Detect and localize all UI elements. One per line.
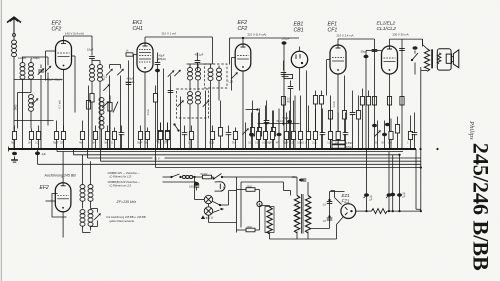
tube V5 EF1/CF1: [330, 45, 346, 74]
trimmer 5-12pF: [102, 75, 110, 91]
component at x=107: [104, 126, 110, 150]
resistor R8: [257, 109, 261, 150]
component at x=251: [248, 113, 254, 150]
resistor R6: [165, 123, 170, 150]
voltage selector plug: [257, 190, 262, 231]
rail wire 3 + label 75V: [88, 157, 421, 161]
wire antenna coupling: [14, 80, 63, 121]
wire top link: [23, 56, 49, 58]
IF transformer L10 pair: [208, 64, 233, 149]
svg-text:40-1µF: 40-1µF: [195, 53, 204, 57]
wire speaker return riser: [420, 67, 422, 212]
wire transformer return: [421, 70, 427, 72]
svg-text:1 mA: 1 mA: [332, 101, 336, 107]
component at x=384: [381, 121, 387, 150]
component at x=235: [232, 128, 237, 150]
svg-text:10µF: 10µF: [87, 48, 94, 52]
svg-text:EL1/EL2: EL1/EL2: [377, 21, 396, 27]
oscillator coil L7 + padder: [99, 96, 118, 150]
wire V7 top: [62, 152, 64, 183]
svg-text:210 V 2,4 mA: 210 V 2,4 mA: [337, 34, 354, 38]
svg-text:245/246 B/BB: 245/246 B/BB: [468, 143, 493, 271]
svg-text:40µF: 40µF: [159, 54, 165, 58]
svg-text:80 mA: 80 mA: [277, 120, 284, 123]
filter capacitor C12 blob: [364, 149, 373, 212]
svg-text:Ausführung 245 BB: Ausführung 245 BB: [44, 174, 77, 178]
component at x=337.7: [335, 113, 341, 150]
wire V2 grid + box: [126, 51, 138, 150]
svg-text:Für Ausführung 245 BB u. 246: Für Ausführung 245 BB u. 246 BB: [107, 215, 146, 219]
svg-text:210 V 1 mA: 210 V 1 mA: [162, 32, 177, 36]
power transformer T2 secondary: [284, 182, 311, 233]
svg-text:pF: pF: [102, 78, 105, 82]
wire to lamps: [195, 177, 205, 200]
tube V4 label EB1 CB1: [294, 22, 304, 34]
svg-text:2000: 2000: [247, 186, 253, 189]
svg-text:CB1: CB1: [294, 27, 304, 33]
component at x=184: [182, 126, 188, 150]
capacitor 40pF + trimmers: [168, 53, 204, 77]
component at x=265: [262, 106, 271, 150]
capacitor 430uF: [155, 53, 167, 150]
note line 2: [108, 180, 141, 188]
svg-text:CF2: CF2: [52, 26, 62, 32]
tube V4 EB1 duodiode: [291, 47, 307, 91]
label 100pF 3-60uF: [18, 56, 40, 60]
tube V8 EZ1 rectifier: [341, 204, 356, 219]
component at x=258: [255, 113, 261, 150]
component at x=140: [137, 126, 143, 150]
IF transformer L9 bottom pair: [188, 92, 201, 121]
component at x=377: [374, 121, 381, 150]
resistor R3 1M: [153, 86, 157, 150]
variable capacitor C3: [106, 65, 113, 150]
oscillator coil L7b: [99, 117, 104, 149]
rail wire 4: [101, 160, 421, 162]
svg-text:4kΩ: 4kΩ: [79, 142, 83, 144]
svg-text:245/BB(B)=12P Zwischen—: 245/BB(B)=12P Zwischen—: [108, 180, 141, 184]
wire V5 cathode: [332, 74, 338, 149]
svg-text:L13: L13: [229, 80, 234, 84]
svg-text:50µF: 50µF: [283, 142, 289, 144]
tube V3 label EF2 CF2: [238, 20, 248, 32]
heater caps 1.5nF pair: [312, 192, 345, 229]
svg-text:430µF (480µF): 430µF (480µF): [47, 80, 63, 82]
svg-text:Philips: Philips: [468, 120, 475, 140]
mains choke L14: [182, 176, 193, 179]
tube V7 EF2 IF amp (BB version): [55, 183, 71, 212]
component at x=191: [188, 126, 193, 150]
tube V6 label EL1 CL1: [377, 21, 397, 33]
tube V2 EK1/CH1 octode: [137, 43, 153, 72]
component at x=56: [53, 121, 59, 150]
wire diode load: [306, 71, 308, 150]
switch S3: [212, 174, 237, 180]
resistors R16 R17: [360, 89, 370, 150]
capacitor C8: [288, 81, 294, 150]
wire: [284, 191, 291, 196]
svg-text:75 V: 75 V: [154, 157, 160, 161]
label 1Mohm: [14, 105, 18, 111]
svg-text:ZF=135 kHz: ZF=135 kHz: [116, 200, 137, 204]
IFT trimmer: [91, 209, 101, 227]
primary fuse + cap: [292, 176, 307, 196]
svg-text:47kΩ: 47kΩ: [346, 147, 352, 149]
wire V2 anode to IFT: [145, 37, 213, 64]
svg-text:CL1/CL2: CL1/CL2: [377, 26, 397, 32]
tube V7 label EF2: [40, 185, 49, 191]
svg-text:4/6 V: 4/6 V: [206, 216, 214, 220]
cathode resistor R18: [387, 97, 391, 150]
label 200V 30mA: [393, 33, 409, 37]
svg-text:245/BB=12V — Zwischen—: 245/BB=12V — Zwischen—: [108, 171, 141, 175]
svg-text:gelten Klammerwerte: gelten Klammerwerte: [110, 219, 135, 223]
wire: [260, 205, 270, 207]
resistors R11 R12: [313, 91, 323, 150]
tube V1 EF2/CF2 pentode: [56, 41, 72, 70]
label 4/6V: [202, 216, 214, 220]
wire rectifier output: [356, 210, 372, 212]
tube V5 label EF1 CF1: [328, 22, 338, 34]
scan edge border left: [0, 0, 2, 281]
svg-text:CH1: CH1: [133, 26, 143, 32]
pickup jack J1: [411, 46, 418, 74]
svg-text:FZ1: FZ1: [342, 198, 350, 203]
filter capacitor C15 blob: [397, 155, 406, 212]
antenna: [7, 17, 21, 36]
earphone jack J2: [215, 182, 226, 191]
svg-text:100 µF: 100 µF: [189, 186, 197, 189]
RF choke L5: [90, 65, 95, 94]
wire + capacitor C11: [163, 182, 200, 191]
component at x=31: [28, 129, 33, 150]
rail wire 1 + bus dots: [57, 148, 403, 152]
capacitor C9: [281, 61, 287, 75]
wire cathode stub: [246, 108, 259, 110]
capacitor 10uF: [87, 48, 95, 65]
tube V8 label EZ1 FZ1: [342, 193, 351, 203]
component at x=300: [297, 96, 304, 150]
component at x=410: [407, 116, 413, 150]
wire V7 grid bracket: [46, 194, 67, 218]
component at x=345: [343, 113, 349, 150]
svg-text:50µF: 50µF: [53, 142, 59, 144]
capacitor 30uF blob: [361, 50, 382, 150]
wire: [163, 69, 165, 150]
component at x=330: [327, 111, 333, 150]
component at x=167: [164, 123, 169, 150]
resistor R20 50k: [201, 172, 212, 179]
IFT1 trimmer 2: [203, 100, 210, 107]
svg-text:(480µF): (480µF): [157, 57, 166, 61]
transformer bottom leads: [270, 232, 337, 240]
component at x=63: [60, 126, 66, 150]
svg-text:50µF: 50µF: [137, 142, 143, 144]
component at x=278.5: [276, 109, 282, 150]
svg-text:(C-Röhren) zu L13: (C-Röhren) zu L13: [110, 184, 132, 188]
wire B+ out: [387, 210, 421, 212]
switch S1: [173, 123, 179, 131]
component at x=293: [290, 101, 296, 150]
component at x=315: [312, 109, 318, 150]
resistor R4: [218, 101, 222, 150]
tube V6 EL1 output pentode + anode wire: [382, 39, 423, 74]
filter resistor R22 zigzag: [372, 209, 388, 214]
lamp selector lever: [213, 191, 237, 207]
svg-text:210 V (0,4 mA): 210 V (0,4 mA): [248, 33, 267, 37]
tube V3 EF2/CF2 IF amp: [235, 44, 251, 71]
IF transformer L13 top pair: [80, 155, 93, 209]
capacitor 100uF blob: [282, 37, 290, 150]
svg-text:100µ: 100µ: [292, 176, 298, 179]
capacitor C6: [168, 76, 174, 150]
svg-text:200 V 30 mA: 200 V 30 mA: [393, 33, 409, 37]
variable capacitor C1: [38, 65, 45, 150]
wire rectifier heater: [331, 191, 342, 205]
bus junction dots: [13, 148, 439, 150]
note line 1: [108, 171, 141, 179]
svg-text:(C-Röhren) für L13: (C-Röhren) für L13: [110, 175, 132, 179]
wire V1 anode: [64, 36, 93, 56]
resistor R1: [90, 94, 94, 150]
wire screen feed + C + R: [399, 39, 405, 149]
wire: [294, 96, 296, 150]
selector resistor Rs1: [237, 186, 260, 192]
component at x=228: [226, 126, 232, 150]
rail resistors 0.5M 47k: [332, 141, 353, 149]
resistor 0.1M: [281, 97, 291, 126]
filter capacitor C14 blob: [390, 155, 395, 212]
wire + capacitor C5: [126, 61, 132, 150]
IFT1 shield box dashed: [177, 89, 209, 118]
resistor R10: [282, 74, 293, 78]
label ZF 135 kHz: [116, 200, 137, 204]
svg-text:140 V (0,4 mA): 140 V (0,4 mA): [65, 32, 84, 36]
IF transformer L13 bottom pair: [80, 210, 93, 233]
svg-text:4µF: 4µF: [42, 152, 47, 156]
component at x=212: [209, 126, 215, 150]
trimmer: [242, 123, 249, 150]
svg-text:0,5MΩ: 0,5MΩ: [297, 142, 304, 144]
svg-text:M: M: [223, 186, 225, 190]
label Ausfuehrung 245 BB: [44, 174, 77, 178]
wire V3 anode bus: [230, 37, 300, 65]
wire V7 cathode down: [62, 212, 64, 238]
antenna coil L1 + wire: [12, 37, 17, 150]
output transformer T1 primary: [423, 39, 430, 71]
svg-text:CF2: CF2: [238, 26, 248, 32]
label 210V 1mA: [162, 32, 177, 36]
wire lamp return: [209, 215, 237, 222]
component at x=147: [144, 128, 149, 150]
capacitor C7: [264, 101, 270, 150]
capacitor C10: [350, 91, 356, 150]
svg-text:Ω: Ω: [111, 142, 113, 144]
label 140V 0.4mA: [65, 32, 84, 36]
component at x=322: [320, 109, 326, 150]
svg-text:50Ω: 50Ω: [388, 142, 393, 144]
capacitor 4uF blob: [35, 149, 46, 158]
capacitor + resistor on B+ feed: [372, 50, 378, 128]
label 210V: [248, 33, 267, 37]
component at x=82: [79, 121, 85, 150]
svg-text:1 mA: 1 mA: [146, 109, 150, 115]
tuning coil L2: [20, 57, 25, 150]
component at x=121: [119, 126, 125, 150]
wire IFT out: [190, 121, 198, 150]
component at x=414: [412, 113, 418, 150]
note Klammerwerte: [107, 215, 146, 223]
resistor R15: [356, 96, 360, 150]
dial lamp LP2: [204, 204, 212, 216]
loudspeaker LS1: [437, 49, 459, 70]
svg-text:0,5MΩ: 0,5MΩ: [346, 143, 353, 145]
tube V1 label EF2 CF2: [52, 21, 62, 33]
svg-text:CF1: CF1: [328, 27, 338, 33]
rail wire 5: [38, 163, 421, 165]
AVC line: [258, 120, 300, 125]
component at x=38: [35, 126, 41, 150]
main chassis bus wire + right turn down: [9, 147, 421, 210]
wire V3 grid + trimmer: [231, 58, 238, 91]
tuning coil L3: [29, 59, 34, 93]
selector wires: [237, 177, 242, 233]
rail drop wires: [38, 149, 156, 168]
resistor R5: [157, 123, 163, 150]
svg-text:2000: 2000: [247, 226, 253, 229]
wire: [99, 94, 101, 150]
lamp lever 2: [213, 208, 225, 213]
wire HT to rectifier: [337, 217, 344, 239]
svg-text:50µF: 50µF: [283, 116, 289, 120]
wire V1 cathode + label 0.7mA: [58, 70, 64, 150]
filter capacitor C13 blob: [386, 152, 392, 213]
selector resistor Rs2: [237, 226, 260, 232]
wire: [205, 91, 207, 150]
power transformer T2 primary: [294, 194, 303, 234]
resistor R13: [328, 96, 332, 150]
wire V6 cathode: [389, 74, 391, 149]
component at x=272: [269, 111, 275, 150]
svg-text:F: F: [223, 208, 225, 212]
capacitor 50uF blob: [283, 111, 293, 150]
fusible resistor R21: [265, 206, 274, 240]
IFT2 shield box dashed: [205, 64, 228, 88]
resistor R9: [271, 111, 275, 150]
wire V5 grid: [327, 60, 331, 96]
svg-text:100µF: 100µF: [282, 37, 290, 41]
resistor R7: [250, 101, 254, 150]
resistor R2: [86, 86, 90, 150]
component at x=160: [157, 123, 162, 150]
oscillator coil L4 variable: [29, 95, 39, 129]
wire: [193, 176, 203, 178]
ground left: [11, 152, 18, 162]
wire grid branch: [18, 93, 32, 129]
svg-text:1525: 1525: [209, 142, 215, 144]
wire V5 anode feed: [338, 39, 375, 149]
svg-text:0,7 mA: 0,7 mA: [58, 100, 62, 108]
svg-text:EF2: EF2: [40, 185, 49, 191]
variable capacitor C2: [45, 57, 52, 126]
transformer core bar: [431, 49, 433, 68]
IF transformer L8 top pair: [187, 64, 213, 91]
mains switch S2: [163, 174, 182, 178]
component at x=14: [11, 126, 16, 150]
wire V1 grids: [46, 51, 76, 113]
wire mains to transformer: [237, 177, 298, 182]
component at x=308: [305, 106, 311, 150]
IFT1 trimmer: [177, 97, 184, 150]
RF coil L6: [92, 61, 103, 94]
tube V2 label EK1 CH1: [133, 20, 143, 32]
dial lamp LP1: [204, 195, 212, 203]
component at x=114: [111, 128, 117, 150]
svg-text:21,5: 21,5: [312, 142, 317, 144]
component at x=286: [283, 113, 289, 150]
wire V2 cathode: [145, 72, 150, 149]
label 210V 2.4mA: [337, 34, 354, 38]
svg-text:(480µF): (480µF): [126, 81, 135, 84]
svg-text:1MΩ: 1MΩ: [14, 105, 18, 111]
component at x=95: [92, 126, 98, 150]
rail wire 6: [156, 167, 421, 169]
svg-text:EZ1: EZ1: [342, 193, 351, 198]
cathode bypass C blob + R19: [385, 117, 400, 150]
resistor R14: [342, 76, 346, 150]
variable capacitor C4: [110, 65, 124, 150]
wire V3 cathode: [242, 71, 244, 149]
rail wire 2: [74, 154, 401, 156]
component at x=390.5: [388, 119, 394, 150]
